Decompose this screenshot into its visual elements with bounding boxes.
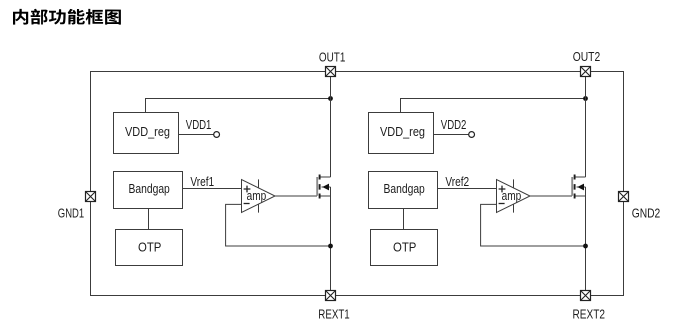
wire source of M2 to REXT2 pad (585, 196, 587, 291)
junction dot feedback/source node (channel 2) (583, 244, 588, 249)
svg-text:VDD_reg: VDD_reg (380, 125, 425, 139)
svg-text:amp: amp (502, 189, 522, 203)
op-amp amp1 supply stub top (258, 179, 260, 188)
transistor M1 channel segments (319, 175, 321, 199)
junction dot node OUT2/VDD net (583, 96, 588, 101)
transistor M1 gate bar (316, 177, 318, 196)
svg-text:VDD1: VDD1 (186, 118, 212, 132)
pad REXT1 (bond pad symbol) (326, 291, 336, 301)
block Bandgap (channel 1) (114, 172, 183, 209)
terminal circle VDD1 (214, 132, 220, 138)
junction dot feedback/source node (channel 1) (328, 244, 333, 249)
wire VDD1 output (179, 134, 214, 136)
wire amp2 output to gate of M2 (530, 195, 572, 197)
block OTP (channel 1) (116, 230, 183, 266)
wire feedback REXT2 to amp2 inverting input (481, 204, 586, 246)
wire VDD_reg2 output to OUT2 net (401, 99, 586, 113)
svg-text:OTP: OTP (393, 240, 416, 254)
svg-text:OUT2: OUT2 (573, 50, 601, 64)
wire Bandgap to OTP (channel 2) (403, 209, 405, 230)
transistor M1 body line (322, 186, 331, 188)
junction dot node OUT1/VDD net (328, 96, 333, 101)
op-amp amp1 minus input marking (244, 203, 250, 205)
svg-text:OTP: OTP (138, 240, 161, 254)
svg-text:VDD_reg: VDD_reg (125, 125, 170, 139)
transistor M2 gate bar (571, 177, 573, 196)
svg-text:Vref1: Vref1 (190, 175, 214, 189)
op-amp amp2 plus input marking (499, 186, 506, 193)
wire source of M1 to REXT1 pad (330, 196, 332, 291)
wire VDD2 output (434, 134, 469, 136)
svg-text:GND2: GND2 (632, 207, 661, 221)
pad OUT1 (bond pad symbol) (326, 67, 336, 77)
transistor M2 channel segments (574, 175, 576, 199)
op-amp amp2 supply stub bottom (513, 204, 515, 213)
pad GND1 (bond pad symbol) (86, 192, 96, 202)
pad OUT2 (bond pad symbol) (581, 67, 591, 77)
transistor M2 body line (577, 186, 586, 188)
wire amp1 output to gate of M1 (275, 195, 317, 197)
transistor M2 source connection (576, 195, 586, 197)
wire feedback REXT1 to amp1 inverting input (226, 204, 331, 246)
chip outline box (91, 72, 624, 296)
block VDD_reg (channel 2) (369, 113, 434, 154)
svg-text:VDD2: VDD2 (441, 118, 467, 132)
transistor M1 body-source tie (330, 187, 332, 196)
op-amp amp2 minus input marking (499, 203, 505, 205)
transistor M2 body arrow (577, 184, 584, 191)
block VDD_reg (channel 1) (114, 113, 179, 154)
wire Vref2 Bandgap to amp noninverting input (438, 188, 497, 190)
pad REXT2 (bond pad symbol) (581, 291, 591, 301)
svg-text:REXT1: REXT1 (318, 307, 349, 321)
pad GND2 (bond pad symbol) (619, 192, 629, 202)
transistor M1 body arrow (322, 184, 329, 191)
block OTP (channel 2) (371, 230, 438, 266)
transistor M1 drain connection (321, 176, 331, 178)
transistor M1 source connection (321, 195, 331, 197)
block Bandgap (channel 2) (369, 172, 438, 209)
wire Bandgap to OTP (channel 1) (148, 209, 150, 230)
svg-text:GND1: GND1 (58, 207, 84, 221)
svg-text:OUT1: OUT1 (319, 51, 346, 65)
op-amp amp2 supply stub top (513, 179, 515, 188)
wire VDD_reg1 output to OUT1 net (146, 99, 331, 113)
wire OUT1 net vertical (pad to drain) (330, 77, 332, 178)
wire OUT2 net vertical (pad to drain) (585, 77, 587, 178)
title 内部功能框图 (Internal Function Block Diagram) (13, 9, 121, 25)
wire Vref1 Bandgap to amp noninverting input (183, 188, 242, 190)
svg-text:Vref2: Vref2 (445, 175, 469, 189)
transistor M2 body-source tie (585, 187, 587, 196)
terminal circle VDD2 (469, 132, 475, 138)
op-amp amp1 triangle (242, 180, 276, 213)
op-amp amp1 plus input marking (244, 186, 251, 193)
svg-text:amp: amp (247, 189, 267, 203)
svg-text:Bandgap: Bandgap (384, 182, 425, 196)
op-amp amp1 supply stub bottom (258, 204, 260, 213)
svg-text:REXT2: REXT2 (573, 308, 606, 322)
transistor M2 drain connection (576, 176, 586, 178)
op-amp amp2 triangle (497, 180, 531, 213)
svg-text:Bandgap: Bandgap (129, 182, 170, 196)
